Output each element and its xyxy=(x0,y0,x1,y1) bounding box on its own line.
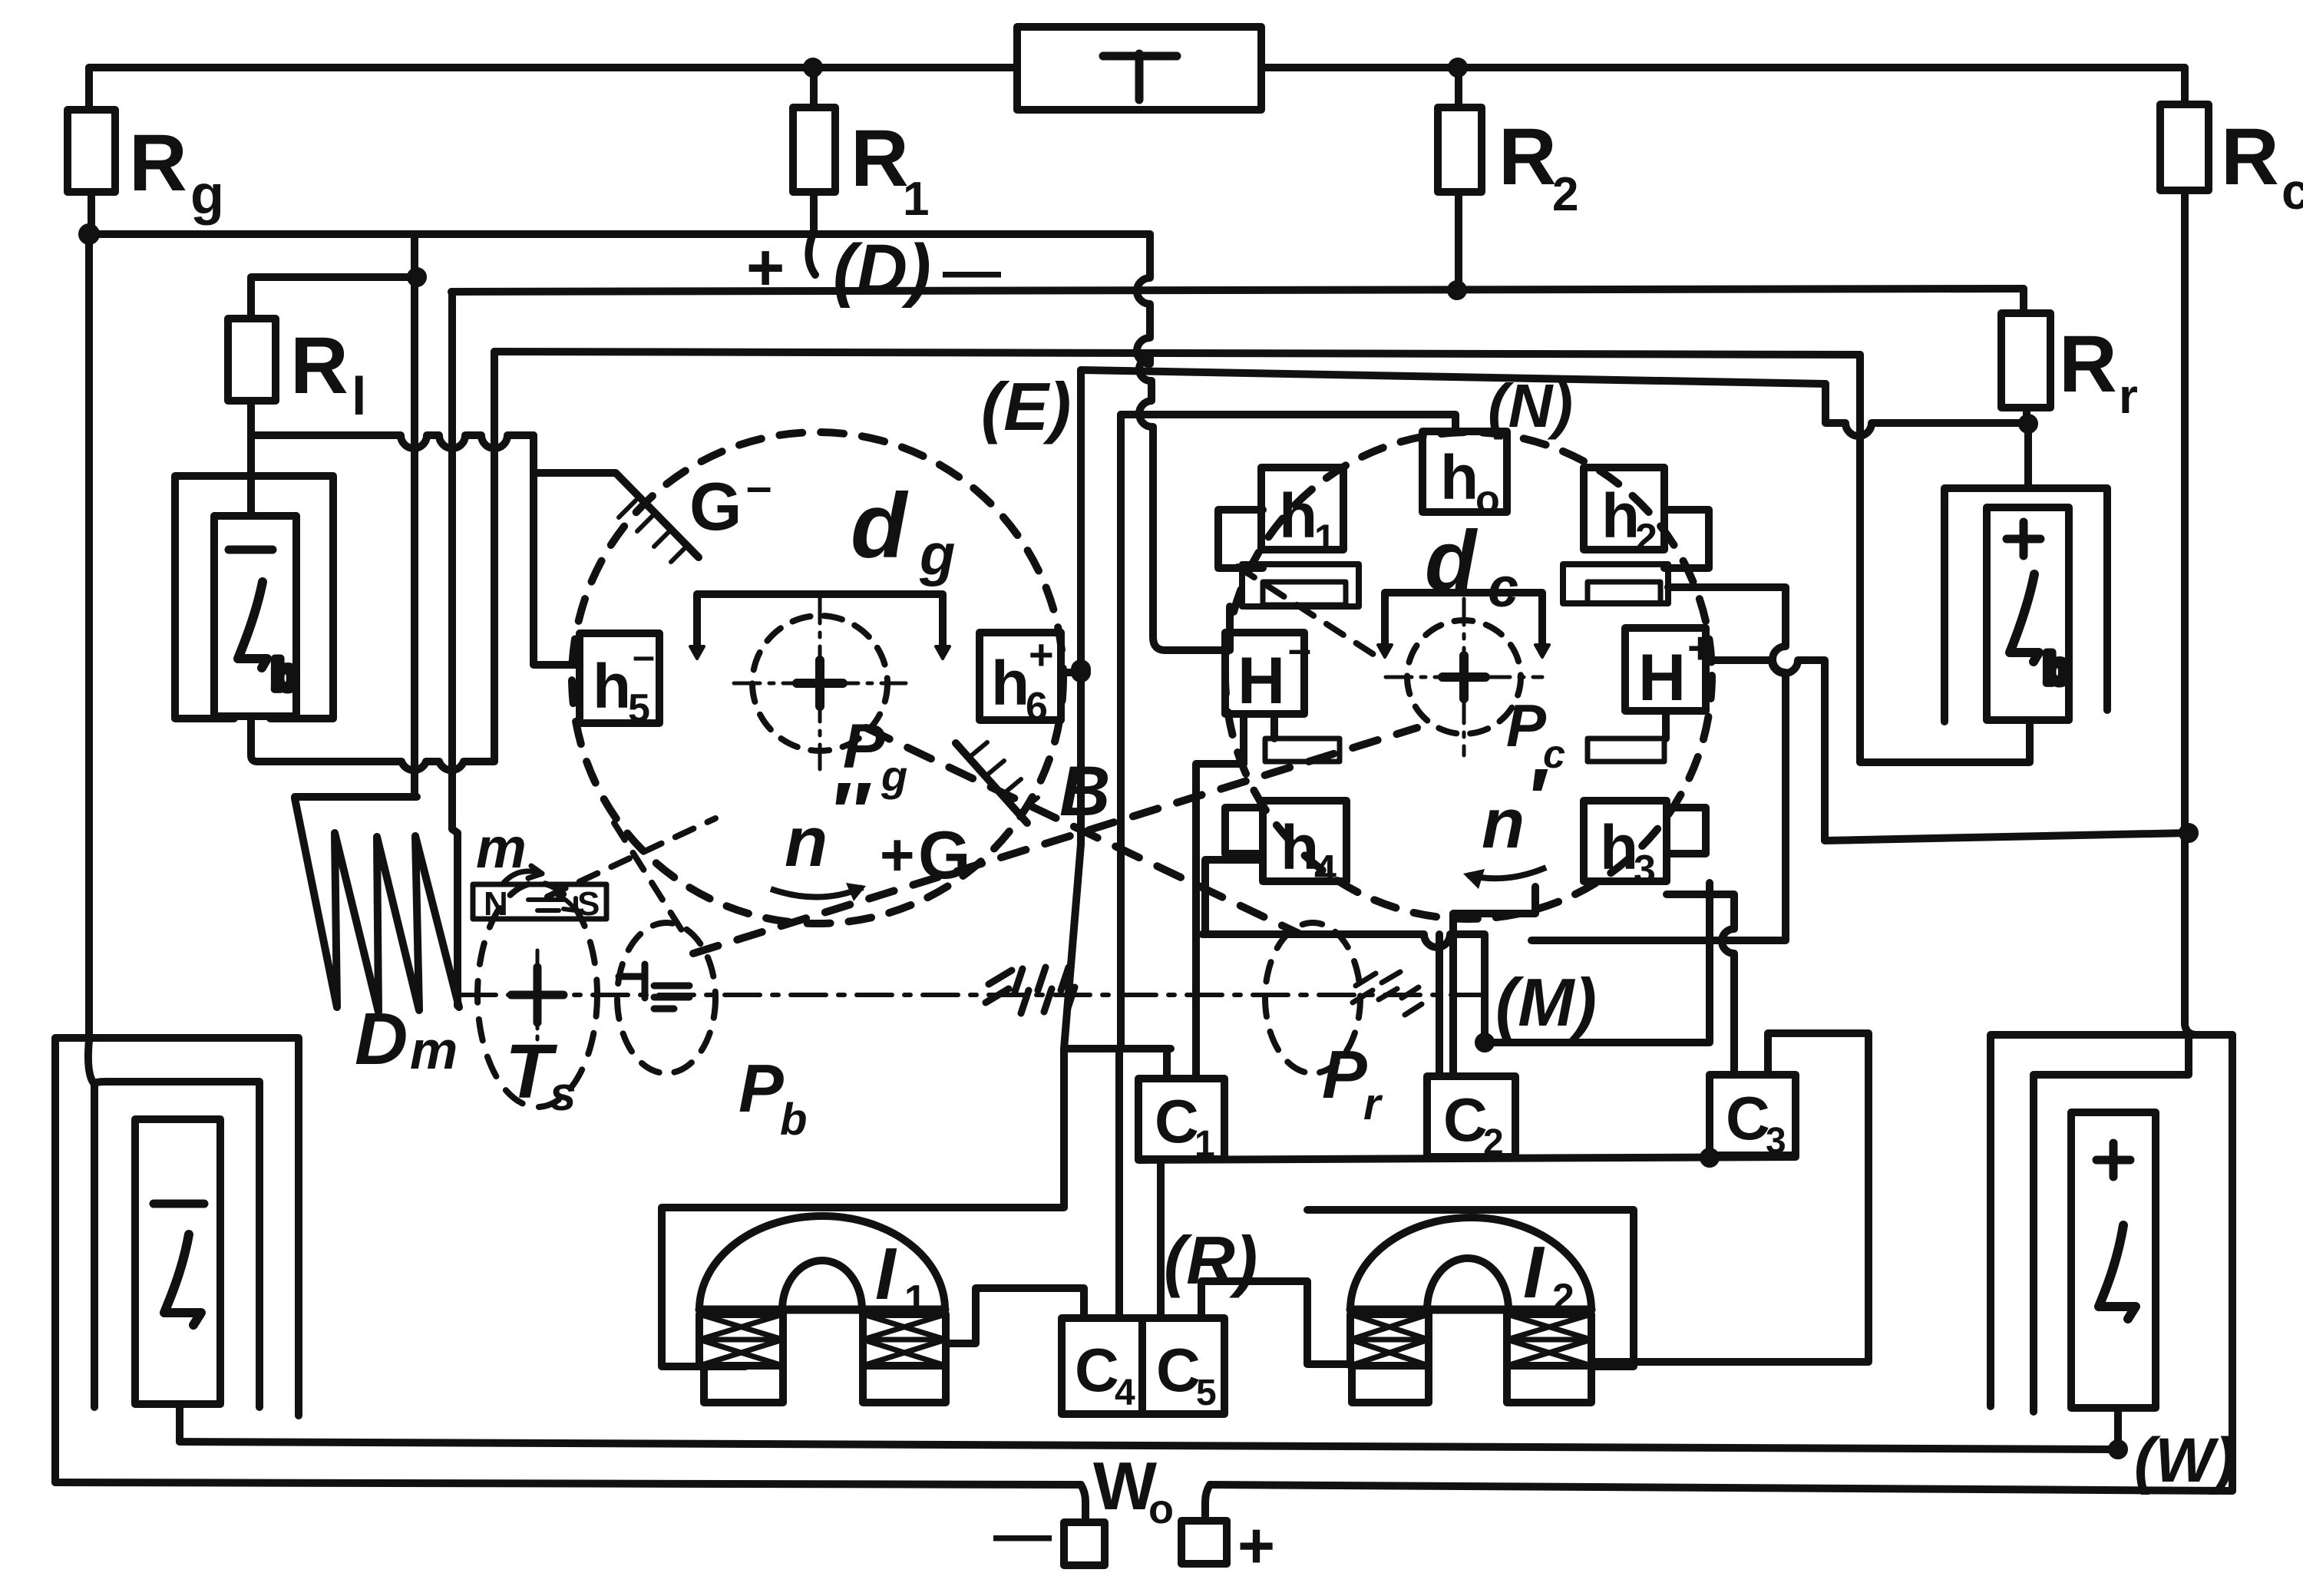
node junction h6 wire on E bus xyxy=(1075,663,1087,676)
tachometer Ts ellipse xyxy=(477,883,597,1107)
svg-text:h: h xyxy=(1440,443,1479,513)
svg-text:—: — xyxy=(943,238,1001,303)
magnet I2 right coil xyxy=(1507,1314,1591,1366)
transformer T xyxy=(1017,27,1261,110)
svg-text:h: h xyxy=(1601,481,1640,551)
svg-text:4: 4 xyxy=(1314,848,1337,892)
motor L right inner frame xyxy=(2034,1038,2189,1412)
node junction left border at D bus xyxy=(82,227,96,241)
svg-text:o: o xyxy=(1148,1486,1174,1532)
svg-text:R: R xyxy=(290,321,349,411)
svg-text:—: — xyxy=(993,1502,1052,1567)
svg-text:h: h xyxy=(1600,813,1638,883)
svg-text:g: g xyxy=(190,164,224,226)
svg-text:C: C xyxy=(1726,1084,1770,1152)
winding h2 xyxy=(1584,468,1664,550)
wire C1 C2 C3 bottom bus xyxy=(1138,1157,1796,1160)
wire L left stem xyxy=(176,1404,183,1442)
belt Pb to Pc dashed xyxy=(693,728,1417,953)
svg-text:o: o xyxy=(1475,477,1500,522)
resistor Rr xyxy=(2020,289,2027,313)
magnet I2 left coil xyxy=(1350,1314,1429,1366)
svg-text:D: D xyxy=(355,998,408,1080)
svg-text:P: P xyxy=(1506,692,1547,759)
wire bottom bus L1 xyxy=(180,1442,2118,1449)
node junction L right stem on bus xyxy=(2112,1443,2124,1456)
svg-text:m: m xyxy=(476,816,527,880)
resistor Rl xyxy=(251,277,417,319)
svg-text:″: ″ xyxy=(832,765,873,860)
svg-text:+: + xyxy=(1029,630,1054,679)
node junction H-plus wire on right border xyxy=(2182,827,2195,839)
shaft hatch marks center xyxy=(986,967,1075,1013)
svg-text:1: 1 xyxy=(903,173,929,226)
brush H-minus xyxy=(1225,633,1304,714)
svg-text:b: b xyxy=(780,1095,807,1145)
wire right border xyxy=(2185,190,2232,1491)
wire bottom border xyxy=(55,1482,1081,1485)
shaft circle Pg xyxy=(752,616,887,751)
brush holder under h2 xyxy=(1664,510,1709,568)
svg-text:(E): (E) xyxy=(981,368,1071,444)
svg-text:–: – xyxy=(633,634,655,679)
magnet I2 outer arch xyxy=(1350,1218,1591,1310)
svg-text:+: + xyxy=(1687,623,1713,673)
winding h1 xyxy=(1261,468,1343,550)
wire bus to C4 xyxy=(1119,415,1121,1318)
motor L left cell xyxy=(135,1119,220,1404)
pulley Pb ellipse xyxy=(617,923,715,1073)
brush holder under h1 xyxy=(1218,510,1263,568)
brush bar above h3 xyxy=(1588,739,1664,762)
svg-text:5: 5 xyxy=(628,686,650,731)
svg-text:1: 1 xyxy=(1194,1124,1215,1165)
svg-text:C: C xyxy=(1443,1085,1488,1154)
wire h1 holder to H-minus wire xyxy=(1226,606,1234,650)
rectifier C5 xyxy=(1142,1318,1224,1414)
svg-text:2: 2 xyxy=(1483,1122,1504,1163)
svg-text:(D): (D) xyxy=(833,230,931,309)
svg-text:m: m xyxy=(410,1020,458,1080)
svg-text:n: n xyxy=(785,803,828,881)
diaphragm Dm zigzag xyxy=(295,793,417,801)
magnet I1 yoke xyxy=(699,1306,945,1314)
wire Wo minus stub xyxy=(1081,1485,1085,1522)
wire H-minus to h4 brush xyxy=(1270,714,1278,739)
svg-text:R: R xyxy=(2221,112,2279,202)
wire E bus drop to Lb loop xyxy=(491,352,498,760)
svg-text:2: 2 xyxy=(1635,516,1657,560)
svg-text:P: P xyxy=(1322,1036,1367,1112)
winding h0 xyxy=(1422,431,1507,512)
wire H-plus right to border xyxy=(1706,660,2189,841)
wire left border xyxy=(88,234,94,1084)
node junction C3 bottom left xyxy=(1703,1152,1716,1164)
shaft axis dash-dot xyxy=(461,993,1497,997)
brush h5-minus xyxy=(580,633,659,723)
svg-text:c: c xyxy=(2282,163,2303,220)
battery Lb right case xyxy=(1944,488,2107,722)
magnet I2 yoke xyxy=(1350,1306,1591,1314)
svg-text:g: g xyxy=(919,522,955,587)
svg-text:1: 1 xyxy=(904,1277,927,1322)
svg-text:G: G xyxy=(689,468,742,544)
svg-text:(M): (M) xyxy=(1495,964,1597,1040)
wire E lower bus xyxy=(1081,370,1826,384)
svg-text:d: d xyxy=(851,474,909,577)
wire Rr junction down to Lb xyxy=(2024,424,2032,488)
brush G-plus xyxy=(956,743,1027,823)
svg-text:1: 1 xyxy=(1314,517,1336,560)
svg-text:r: r xyxy=(2119,368,2138,424)
node junction R2 top xyxy=(1452,61,1464,74)
svg-text:6: 6 xyxy=(1026,685,1048,729)
svg-text:C: C xyxy=(1075,1336,1119,1404)
svg-text:B: B xyxy=(1059,752,1110,831)
wire H-minus bottom to C1 bus xyxy=(1196,714,1244,1079)
brush bar above h4 xyxy=(1265,739,1340,762)
brush G-minus hatching xyxy=(619,501,688,562)
magnet m N-S box xyxy=(473,884,606,919)
belt segment near h1 xyxy=(1237,567,1380,659)
wire I2 to C3 xyxy=(1591,1033,1869,1362)
svg-text:R: R xyxy=(129,118,187,208)
motor L right outer frame xyxy=(1991,1035,2232,1406)
terminal Wo plus xyxy=(1181,1521,1227,1564)
svg-text:4: 4 xyxy=(1115,1373,1135,1413)
magnet I1 inner arch xyxy=(782,1261,862,1310)
motor L left outer frame xyxy=(55,1038,299,1482)
svg-text:l: l xyxy=(352,366,366,426)
node D negative bus xyxy=(451,289,2024,292)
wire h4 left loop xyxy=(1205,860,1263,934)
rotor circle dc dashed xyxy=(1225,432,1712,919)
node junction M bracket corner xyxy=(1479,1036,1491,1049)
svg-text:b: b xyxy=(272,650,298,699)
svg-text:R: R xyxy=(1498,112,1557,202)
wire I1 to C4 xyxy=(946,1288,1084,1343)
svg-text:3: 3 xyxy=(1766,1121,1786,1161)
svg-text:d: d xyxy=(1425,514,1479,608)
battery Lb left outer case xyxy=(175,476,333,719)
svg-text:5: 5 xyxy=(1196,1373,1217,1413)
magnet I1 outer arch xyxy=(699,1216,945,1310)
svg-text:3: 3 xyxy=(1634,848,1656,892)
svg-text:I: I xyxy=(875,1233,897,1315)
wire E upper bus drop to Lb case xyxy=(1860,355,2030,762)
wire E lower bus to Rr bottom junction xyxy=(1826,384,2028,436)
svg-text:P: P xyxy=(738,1050,784,1126)
wire C3 left riser to h3 xyxy=(1667,894,1734,1075)
commutator C1 xyxy=(1138,1079,1224,1159)
brush H-plus xyxy=(1625,628,1706,711)
magnet I2 case xyxy=(1307,1210,1634,1366)
motor L left inner frame xyxy=(94,1082,259,1407)
node junction R1 top xyxy=(807,61,819,74)
wire top border left of T xyxy=(89,64,1017,71)
shaft circle Pc xyxy=(1407,620,1521,734)
wire top border right of T xyxy=(1261,64,2185,71)
svg-text:(N): (N) xyxy=(1488,372,1573,440)
shaft hatch marks right xyxy=(1353,972,1422,1015)
svg-text:c: c xyxy=(1488,557,1518,619)
resistor R2 xyxy=(1455,68,1462,107)
svg-text:b: b xyxy=(2044,644,2070,692)
svg-text:W: W xyxy=(1093,1448,1157,1524)
shaft coupling at Pb xyxy=(619,964,689,1009)
wire below h4 to M bracket xyxy=(1202,883,1710,1043)
svg-text:+: + xyxy=(880,821,915,888)
wire C5 to I2 xyxy=(1201,1281,1350,1364)
wire bracket above C1 xyxy=(1064,1049,1171,1079)
pulley Pr ellipse xyxy=(1265,923,1360,1073)
wire h2 holder loop down to h3 xyxy=(1531,587,1786,940)
svg-text:h: h xyxy=(991,649,1029,719)
svg-text:–: – xyxy=(1288,626,1311,672)
svg-text:g: g xyxy=(881,752,907,800)
brush h6-plus xyxy=(980,633,1061,720)
wire C1 bottom to C5 xyxy=(1157,1160,1165,1318)
svg-text:R: R xyxy=(851,114,909,203)
svg-text:G: G xyxy=(918,817,970,893)
wire central bus from D down to H-minus xyxy=(1137,234,1226,650)
winding h3 xyxy=(1584,801,1667,881)
vertical bus from Dneg to shaft xyxy=(452,292,458,1006)
magnet I1 right coil xyxy=(863,1314,946,1366)
svg-text:–: – xyxy=(746,461,772,512)
wire Wo plus stub xyxy=(1205,1485,1210,1521)
wire Rl bottom bus with hops xyxy=(251,435,534,448)
belt crossing near Ts xyxy=(547,818,715,935)
svg-text:′: ′ xyxy=(1529,752,1549,846)
wire C2 risers xyxy=(1439,887,1535,1076)
svg-text:R: R xyxy=(2059,319,2117,409)
svg-text:r: r xyxy=(1363,1079,1383,1129)
node junction Rl top on D bus drop xyxy=(411,271,423,283)
arrow n doubleprime xyxy=(771,887,863,897)
terminal Wo minus xyxy=(1064,1522,1105,1565)
svg-text:h: h xyxy=(1280,813,1319,883)
svg-text:h: h xyxy=(1279,481,1317,551)
wire E upper bus xyxy=(494,352,1860,355)
svg-text:s: s xyxy=(550,1068,576,1121)
svg-text:+: + xyxy=(746,231,785,305)
svg-text:(R): (R) xyxy=(1164,1222,1257,1298)
belt Pg to Pr dashed xyxy=(866,728,1299,933)
svg-text:H: H xyxy=(1638,641,1686,715)
svg-text:+: + xyxy=(1237,1509,1275,1581)
wire H-plus bottom to h3 brush xyxy=(1662,711,1670,739)
wire N bus to h0 xyxy=(1121,415,1455,431)
svg-text:N: N xyxy=(484,885,508,923)
motor L right cell xyxy=(2071,1112,2156,1408)
resistor Rg xyxy=(85,68,93,110)
svg-text:H: H xyxy=(1237,644,1285,718)
brush bracket over Pc xyxy=(1385,593,1542,646)
brush holder right of h3 xyxy=(1667,808,1706,854)
rectifier C4 xyxy=(1062,1318,1142,1414)
svg-text:C: C xyxy=(1155,1087,1199,1155)
battery Lb right cell xyxy=(1987,507,2069,720)
commutator C2 xyxy=(1427,1076,1515,1157)
svg-text:n: n xyxy=(1482,785,1525,863)
node junction Rr bottom xyxy=(2022,418,2034,430)
node E vertical drop left xyxy=(662,370,1081,1366)
svg-text:S: S xyxy=(577,885,600,923)
node D positive bus xyxy=(87,230,1150,238)
arrow n prime xyxy=(1468,867,1546,878)
resistor Rc xyxy=(2181,68,2189,104)
wire Lb bottom loop with hops xyxy=(251,716,494,770)
svg-text:(W): (W) xyxy=(2134,1426,2235,1495)
brush holder left of h4 xyxy=(1225,808,1263,854)
winding h4 xyxy=(1263,801,1346,881)
wire brush G-minus feed xyxy=(534,435,699,665)
svg-text:2: 2 xyxy=(1552,1276,1574,1320)
svg-text:I: I xyxy=(1523,1231,1545,1313)
magnet I2 inner arch xyxy=(1427,1258,1508,1310)
vertical bus from D to Dm fork xyxy=(411,234,418,797)
resistor R1 xyxy=(810,68,818,107)
commutator C3 xyxy=(1710,1075,1796,1155)
brush bracket over Pg xyxy=(697,594,943,648)
wire L right stem xyxy=(2114,1408,2122,1449)
battery Lb left cell xyxy=(214,516,296,716)
magnet I1 left coil xyxy=(699,1314,783,1366)
svg-text:C: C xyxy=(1156,1336,1201,1404)
svg-text:h: h xyxy=(593,652,631,722)
wire R2 to D bus junction xyxy=(1451,284,1463,296)
svg-text:2: 2 xyxy=(1552,168,1578,221)
rotor circle dg dashed xyxy=(572,432,1063,924)
